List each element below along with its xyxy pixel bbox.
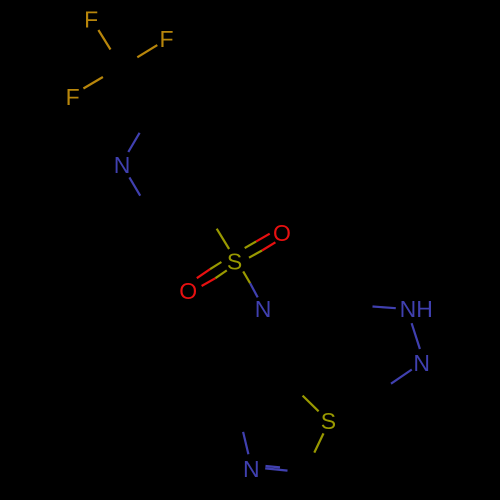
double bond S1=O1 line B, oxygen half <box>262 242 275 250</box>
svg-text:N: N <box>114 152 131 178</box>
bond C-F2 (fluorine half) <box>137 45 157 57</box>
pyrazole bond N2-C3 (nitrogen half) <box>391 370 412 384</box>
bond CH2-S1 (sulfur half) <box>217 229 229 249</box>
double bond S1=O2 line B, sulfur half <box>215 270 226 278</box>
svg-text:S: S <box>321 408 336 434</box>
thiazole bond N3-C4 (nitrogen half) <box>243 432 248 454</box>
svg-text:N: N <box>243 456 260 482</box>
thiazole double bond N3=C2 outer line (nitrogen half) <box>265 468 287 470</box>
bond N1-CH2(CF3) upper (nitrogen half) <box>128 133 139 152</box>
svg-text:F: F <box>66 84 80 110</box>
svg-text:F: F <box>159 26 173 52</box>
svg-text:F: F <box>84 7 98 33</box>
svg-text:NH: NH <box>400 296 433 322</box>
double bond S1=O2 line A, oxygen half <box>197 269 210 278</box>
thiazole double bond N3=C2 inner line (nitrogen half) <box>266 466 281 467</box>
double bond S1=O1 line A, sulfur half <box>245 241 257 248</box>
bond N1-CH2 lower (nitrogen half) <box>129 177 140 195</box>
double bond S1=O1 line A, oxygen half <box>256 234 270 242</box>
double bond S1=O2 line A, sulfur half <box>210 262 221 269</box>
double bond S1=O2 line B, oxygen half <box>202 278 216 286</box>
bond C-F3 (fluorine half) <box>83 77 103 89</box>
thiazole bond S-C2 (sulfur half) <box>314 433 323 452</box>
pyrazole bond C5-N1H (nitrogen half) <box>373 307 396 309</box>
bond C-F1 (fluorine half) <box>98 30 110 50</box>
svg-text:O: O <box>273 220 291 246</box>
svg-text:S: S <box>227 249 242 275</box>
svg-text:O: O <box>179 278 197 304</box>
pyrazole bond N1H-N2 <box>412 323 420 349</box>
bond S1-N2 sulfur half <box>243 271 250 283</box>
svg-text:N: N <box>413 350 430 376</box>
double bond S1=O1 line B, sulfur half <box>249 251 262 258</box>
svg-text:N: N <box>255 296 272 322</box>
thiazole bond C5-S (sulfur half) <box>303 396 319 412</box>
bond S1-N2 nitrogen half <box>250 283 258 297</box>
